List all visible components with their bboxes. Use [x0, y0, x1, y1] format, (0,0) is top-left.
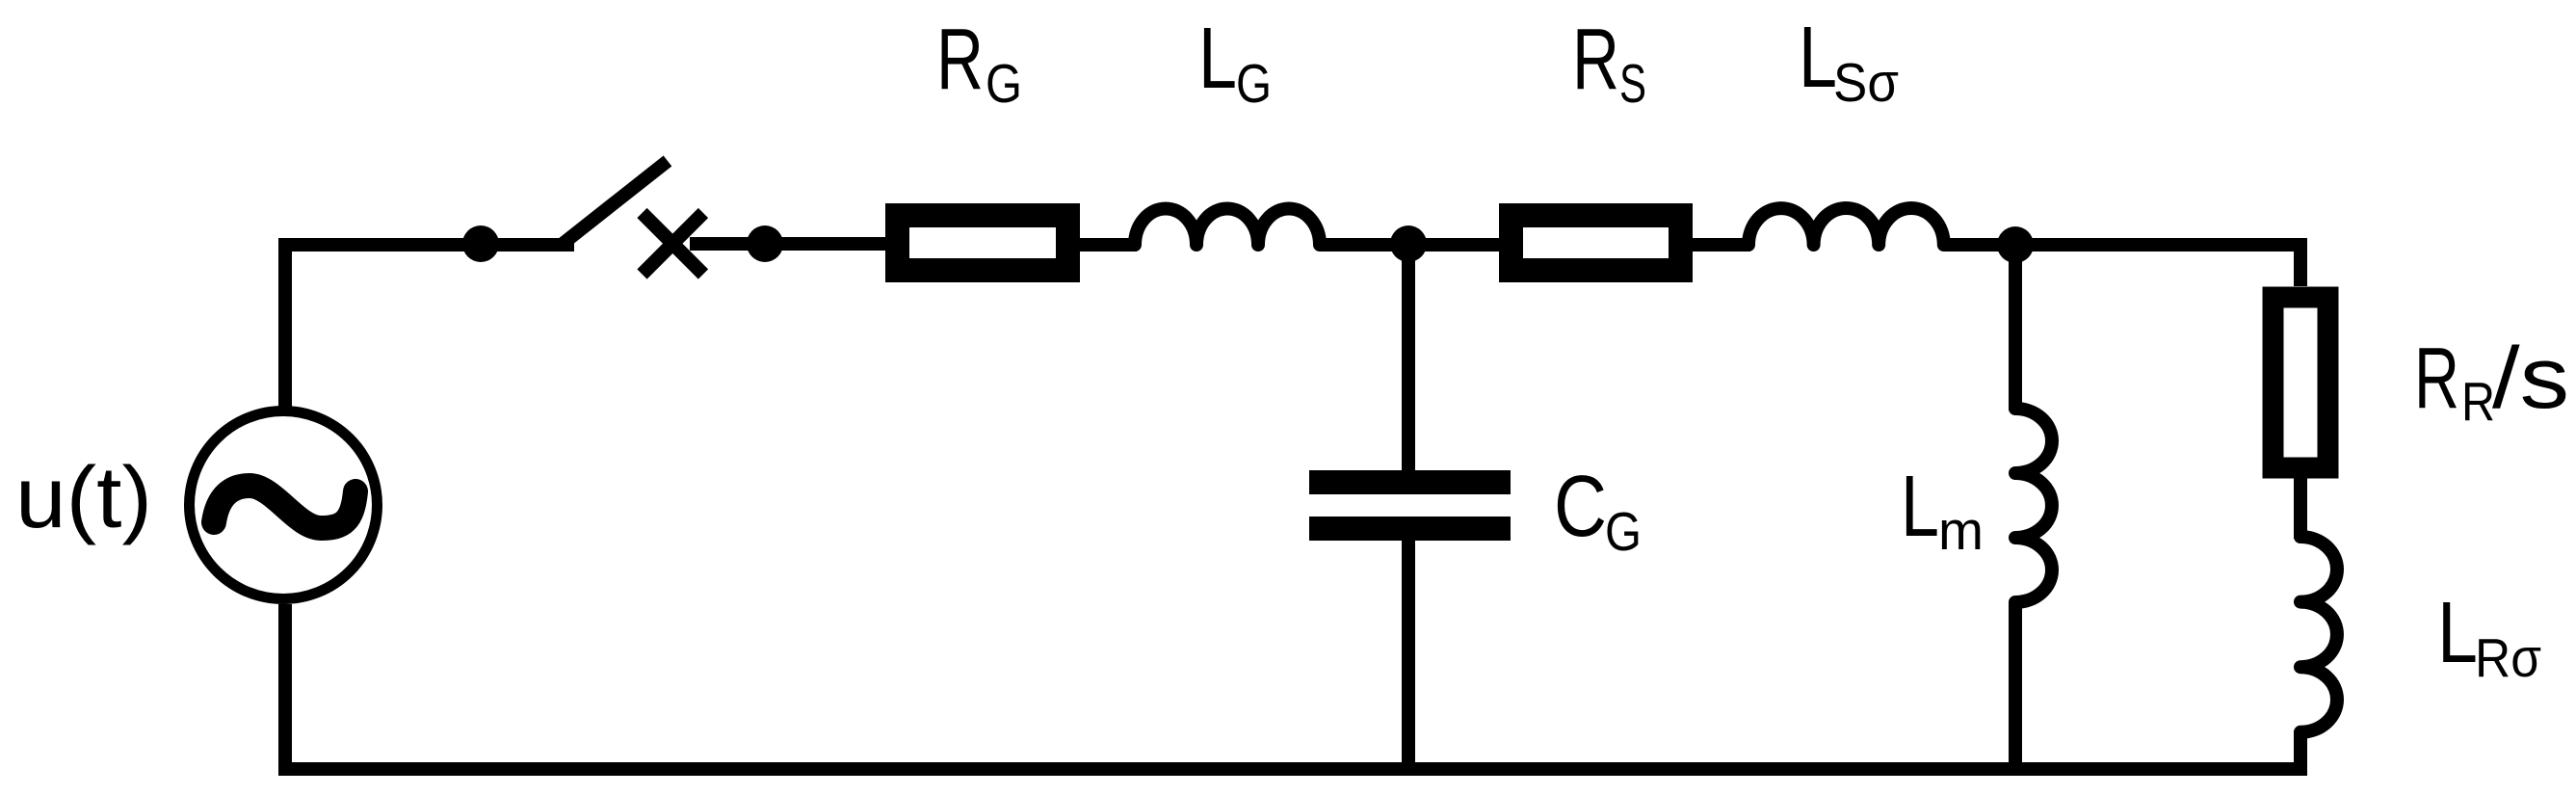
capacitor CG bottom plate — [1309, 517, 1511, 541]
svg-text:L: L — [2437, 585, 2478, 681]
svg-text:u(t): u(t) — [15, 450, 152, 546]
svg-text:R: R — [1572, 12, 1619, 108]
node C junction dot (capacitor tap) — [1390, 225, 1427, 262]
inductor LG — [1135, 209, 1320, 245]
resistor RS — [1511, 216, 1681, 271]
svg-text:Sσ: Sσ — [1833, 52, 1899, 114]
wire: node D down to Lm — [2009, 245, 2022, 411]
AC source sine symbol — [214, 486, 355, 528]
svg-text:R: R — [2461, 371, 2495, 433]
resistor RR/s (vertical) — [2274, 298, 2328, 468]
svg-text:G: G — [1236, 53, 1272, 115]
resistor RG — [898, 216, 1068, 271]
svg-text:Rσ: Rσ — [2475, 627, 2541, 689]
node B junction dot (right of switch) — [747, 225, 783, 262]
svg-text:S: S — [1619, 53, 1646, 115]
wire: Lm down to bottom rail — [2009, 602, 2022, 769]
breaker X mark on switch — [643, 213, 704, 275]
inductor LRsigma (vertical) — [2300, 537, 2337, 732]
wire: RS to LSs — [1693, 238, 1750, 252]
inductor LSsigma — [1748, 208, 1944, 245]
inductor Lm (vertical) — [2015, 409, 2052, 602]
switch S1 lever — [563, 161, 668, 244]
svg-text:m: m — [1938, 500, 1984, 562]
svg-text:/s: /s — [2492, 331, 2569, 427]
wire: LG to RS through capacitor node — [1320, 238, 1499, 252]
wire: RR/s to LRsigma — [2294, 478, 2307, 539]
svg-text:G: G — [986, 53, 1022, 115]
wire: capacitor node down to CG top plate — [1402, 245, 1415, 472]
wire: CG bottom plate down to bottom rail — [1402, 539, 1415, 769]
wire: switch to resistor RG — [690, 237, 885, 251]
wire: LSs to top-right corner, down to RR/s — [1944, 245, 2300, 286]
svg-text:R: R — [936, 12, 984, 108]
svg-text:C: C — [1554, 459, 1607, 555]
wire top-left: source up to switch — [285, 245, 574, 407]
bottom rail wire with corners — [285, 604, 2300, 769]
AC source U1 circle — [190, 411, 378, 599]
wire: RG to LG — [1080, 238, 1137, 252]
node D junction dot (magnetizing tap) — [1997, 226, 2034, 263]
svg-text:L: L — [1799, 10, 1837, 106]
capacitor CG top plate — [1309, 470, 1511, 494]
svg-text:R: R — [2414, 331, 2459, 427]
node A junction dot (left of switch) — [462, 225, 499, 262]
svg-text:L: L — [1198, 11, 1237, 107]
svg-text:G: G — [1605, 501, 1642, 563]
svg-text:L: L — [1901, 459, 1939, 555]
